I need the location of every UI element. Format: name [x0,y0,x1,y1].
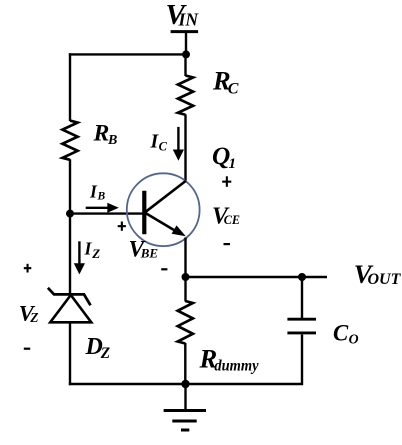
svg-text:B: B [107,133,117,148]
wire bottom rail [69,383,303,385]
node emitter junction dot [182,273,190,281]
svg-text:Z: Z [29,310,38,325]
wire top rail [69,53,187,55]
node top junction dot [182,50,190,58]
wire output rail [186,276,328,278]
svg-text:BE: BE [140,245,159,260]
node ground junction dot [181,380,189,388]
zener diode DZ triangle [50,295,91,322]
sign plus base (VBE +) [118,222,126,231]
capacitor CO bottom plate [287,331,316,334]
ground bar 3 [181,429,189,432]
node output junction dot [298,273,306,281]
svg-text:OUT: OUT [368,271,402,288]
svg-text:CE: CE [224,213,240,227]
wire Rdummy lower lead [184,343,186,385]
wire left branch lower [69,322,71,385]
wire VIN stub [185,32,187,57]
arrow IB [86,207,110,209]
arrow IZ [78,241,80,266]
svg-text:dummy: dummy [214,357,258,374]
arrow IC [177,127,179,152]
ground bar 1 [164,409,206,412]
svg-text:C: C [159,140,168,154]
wire collector branch upper [184,53,186,76]
capacitor CO top plate [287,318,316,321]
sign plus zener (VZ +) [24,264,32,273]
transistor Q1 emitter arrowhead [172,225,186,236]
transistor Q1 collector line [145,181,186,212]
sign minus emitter (VBE -) [161,268,167,270]
node VIN terminal bar [171,30,199,33]
resistor Rdummy [178,301,193,344]
node base node dot [66,210,74,218]
svg-text:I: I [84,239,93,259]
svg-text:C: C [228,80,239,97]
transistor Q1 emitter line [145,213,176,231]
wire base wire [70,212,143,214]
svg-text:Z: Z [100,345,110,362]
zener diode DZ cathode bar [48,288,91,306]
wire emitter lead [184,238,186,279]
resistor RB [62,121,77,160]
svg-text:IN: IN [178,10,200,30]
capacitor CO bottom lead [301,335,303,386]
wire left branch middle [69,159,71,295]
transistor Q1 base bar [142,191,146,235]
capacitor CO top lead [301,277,303,318]
wire collector lead [184,114,186,181]
sign minus zener (VZ -) [24,348,30,350]
transistor Q1 circle [127,173,200,246]
svg-text:O: O [349,332,359,347]
resistor RC [178,76,193,115]
wire Rdummy upper lead [184,277,186,302]
svg-text:R: R [93,120,110,146]
sign minus VCE [224,243,231,245]
ground stub [184,384,186,410]
svg-text:B: B [97,191,106,203]
svg-text:1: 1 [229,156,237,172]
ground bar 2 [172,420,196,423]
wire left branch upper [69,53,71,121]
svg-text:C: C [333,320,349,345]
svg-text:Z: Z [91,246,100,261]
sign plus collector (VCE +) [222,176,231,187]
